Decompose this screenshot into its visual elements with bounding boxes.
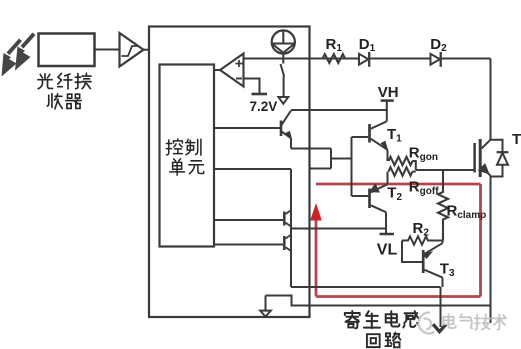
resistor R2 [402,236,444,244]
gate symbol G1 [283,212,286,226]
wire receiver to schmitt [95,49,120,51]
switch S1 below source [281,59,285,97]
transistor Q1 buffer [280,121,283,137]
wire T4 collector [490,59,492,140]
wire T3 collector down [442,278,444,287]
parasitic loop top wire [316,183,481,186]
VH supply terminal [381,99,394,102]
diode D2 cathode bar [440,52,442,67]
wire T1 emitter to Rgon [387,150,389,161]
svg-text:7.2V: 7.2V [250,99,278,114]
wire op-amp minus to ground [244,79,260,94]
schmitt hysteresis mark [122,46,139,56]
transistor T2 [368,189,371,209]
wire R2 left to T3 base [402,241,422,263]
driver board outline [149,27,310,318]
gate ground arrow [433,324,446,331]
resistor Rclamp [438,170,448,241]
wire local ground step [266,296,491,306]
inner bus vertical [290,169,292,287]
freewheel diode D3 [491,140,503,177]
fiber receiver box [39,34,95,67]
lightning bolt 2 [21,33,36,49]
parasitic loop right wire [479,184,482,297]
gate node bracket [413,161,416,172]
transistor T1 [368,124,371,143]
wire T3 rail [291,286,441,288]
transistor T3 [422,250,425,273]
wire schmitt to control board [144,49,151,51]
wire VL rail [291,228,386,230]
wire T4 emitter [490,176,492,323]
wire buffer collector rail [291,109,387,111]
local ground arrow [260,296,271,317]
switch arrow terminal [278,97,288,104]
wire emitter node across [291,148,331,150]
wire T3 emitter up [442,241,444,244]
wire node bottom [310,168,332,170]
schmitt buffer U1 [120,33,144,67]
wire control unit to G2 [214,244,283,246]
watermark 电气技术 [443,314,506,330]
resistor R1 [323,54,346,63]
wire Q1 emitter down [290,138,292,148]
wire bus to T2 base [352,195,369,197]
parasitic loop bottom wire [316,295,481,298]
diode D1 [359,54,368,65]
wire T2 emitter to Rgoff [387,172,389,185]
wire gate node to T4 gate [416,169,474,171]
resistor Rgoff [389,167,413,175]
wire control to inner bus [214,168,291,170]
label 控制单元 (control unit) [166,139,204,175]
surge source inner marks [272,30,295,52]
wire op-amp plus rail [244,58,491,60]
wire to gate-drive ground [440,287,442,327]
wire bus to T1 base [352,136,369,138]
svg-text:VH: VH [378,84,399,101]
gate symbol G2 [283,236,286,250]
diode D1 cathode bar [368,52,370,67]
wire control unit to G1 [214,219,283,221]
surge source B1 circle [272,30,295,53]
label 光纤接收器 (fiber receiver) [38,73,91,109]
op-amp minus pin mark [236,78,242,80]
node link vertical [330,149,332,169]
op-amp plus pin marks [236,60,243,67]
ground bar 7.2V [252,93,268,96]
svg-text:T4: T4 [512,131,521,150]
red current arrow [310,203,322,221]
wire node to base bus [331,158,352,160]
control unit box [160,65,215,247]
resistor Rgon [389,157,413,165]
parasitic loop left wire [315,220,318,297]
wire control unit to Q1 base [214,127,280,129]
label 寄生电感回路 (parasitic inductance loop) [345,311,420,347]
watermark logo swirl [419,312,435,333]
VL terminal bar [380,233,395,236]
op-amp U2 [220,54,244,87]
base bus vertical [351,137,353,196]
wire circle to rail [282,54,284,59]
wire op-amp output to control unit [214,69,220,71]
svg-text:VL: VL [377,241,398,258]
wire T2 collector to VL [385,212,387,234]
wire VH to T1 collector [386,101,388,122]
lightning input icon [2,33,36,77]
IGBT T4 [473,143,476,173]
diode D2 [431,54,440,65]
